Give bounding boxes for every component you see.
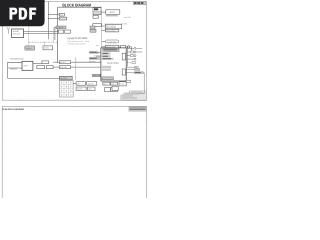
vibrator box row 1b bbox=[87, 82, 97, 86]
svg-text:(Qual) PLATFORM: (Qual) PLATFORM bbox=[67, 37, 87, 40]
wire soc left 1 bbox=[96, 52, 101, 54]
svg-text:GPU:Mali T820 400MHz: GPU:Mali T820 400MHz bbox=[67, 42, 85, 45]
svg-text:Intel X86: Intel X86 bbox=[124, 16, 131, 19]
PDF badge overlay bbox=[0, 0, 45, 26]
box 3 grey row bbox=[94, 12, 101, 13]
front camera box J7 bbox=[105, 29, 119, 32]
wire camera B bbox=[102, 30, 106, 32]
soc internal block sd bbox=[102, 69, 111, 71]
codec block U11 box B bbox=[37, 66, 45, 69]
soc internal sdram block bbox=[103, 49, 119, 52]
platform caption text bbox=[67, 37, 89, 45]
flash pill FL1 bbox=[105, 40, 119, 43]
svg-text:GSEN: GSEN bbox=[44, 47, 50, 50]
wire vertical net under badge bbox=[47, 2, 49, 40]
box 4 bbox=[93, 24, 102, 27]
page 1 border frame bbox=[2, 1, 146, 100]
wire soc left audio 2 bbox=[76, 66, 101, 68]
connector J5 pair box B bbox=[65, 30, 71, 33]
wire codec to bus B bbox=[53, 66, 59, 68]
xtal grey box X1 bbox=[92, 74, 101, 77]
lcd small box left of table bbox=[112, 86, 118, 90]
svg-text:eMCP: eMCP bbox=[110, 11, 116, 14]
rf grey box A bbox=[89, 51, 99, 54]
page 1 border tick marks bbox=[2, 1, 146, 100]
main power bus vertical bbox=[75, 57, 77, 79]
pmic U3 body table bbox=[60, 81, 74, 98]
sim connector row 2 bbox=[127, 51, 142, 53]
headset grey box row 6 bbox=[126, 66, 138, 68]
revision table grey cells bbox=[122, 91, 142, 98]
soc internal block lpddr bbox=[102, 77, 114, 80]
box 5 bbox=[90, 26, 95, 28]
node bus dot 1 bbox=[57, 26, 58, 27]
wire usb link bbox=[119, 47, 132, 51]
wire soc left 2 bbox=[96, 55, 101, 57]
soc internal block ddr bbox=[102, 55, 111, 57]
svg-text:TCARD: TCARD bbox=[120, 83, 125, 85]
svg-text:SIM2: SIM2 bbox=[111, 84, 114, 86]
motor grey box row 7 bbox=[126, 69, 140, 71]
lcd interface box column: box 1 bbox=[93, 8, 101, 15]
wire wifi sdio bbox=[24, 30, 59, 32]
soc internal block usb bbox=[102, 66, 111, 68]
soc right pin strip B bbox=[122, 69, 125, 75]
pmic cell symbols bbox=[61, 82, 72, 97]
antenna ANT1 bbox=[7, 27, 10, 34]
soc right pin strip A bbox=[122, 53, 125, 60]
svg-text:BLOCK DIAGRAM: BLOCK DIAGRAM bbox=[62, 2, 91, 7]
sim connector row 1 bbox=[127, 47, 142, 49]
page 2 top border bbox=[2, 106, 146, 198]
connector row 5 dashed bbox=[127, 62, 135, 64]
codec block U11 box A bbox=[42, 61, 49, 64]
svg-text:SIM1: SIM1 bbox=[103, 84, 106, 86]
svg-text:MODULE: MODULE bbox=[13, 33, 21, 36]
usb connector circle bbox=[128, 46, 130, 48]
node bus dot 2 bbox=[57, 30, 58, 31]
svg-text:SPEAKERS OUT: SPEAKERS OUT bbox=[10, 57, 25, 60]
gsensor U9 box bbox=[43, 46, 53, 50]
page 2 title block grey bbox=[129, 107, 147, 112]
emcp memory U2 bbox=[106, 10, 120, 17]
soc internal block a53 bbox=[102, 52, 111, 54]
wire camera A bbox=[102, 25, 106, 27]
speaker grey pill bbox=[126, 72, 144, 74]
wire amp to codec bbox=[33, 63, 42, 65]
wire audio bus to soc A bbox=[71, 61, 76, 63]
wire soc left xtal bbox=[99, 74, 102, 76]
usb box J8 bbox=[105, 45, 119, 48]
svg-text:SC2723: SC2723 bbox=[60, 77, 67, 80]
rf grey box B bbox=[89, 57, 100, 60]
page 2 border ticks bbox=[2, 106, 146, 170]
soc internal block gpu bbox=[102, 58, 114, 60]
key connector row 4 bbox=[127, 58, 136, 60]
wire flash bbox=[102, 40, 106, 42]
headset block box D bbox=[59, 61, 70, 64]
svg-text:SC2713G: SC2713G bbox=[107, 62, 119, 65]
connector J5 pair box A bbox=[58, 30, 63, 33]
led box row 2b bbox=[87, 87, 95, 91]
wire dashed from bus bbox=[53, 27, 55, 42]
connector J3 small box bbox=[59, 13, 64, 16]
title block (top-right revision table) bbox=[133, 1, 146, 5]
display box dark label bbox=[94, 8, 98, 10]
wire right edge down bbox=[126, 73, 144, 94]
fingerprint box bbox=[105, 88, 118, 92]
led box row 2a bbox=[76, 87, 86, 91]
wire speaker left bbox=[8, 62, 60, 78]
box 6 bbox=[90, 29, 96, 32]
wire bus to pmic bbox=[75, 78, 77, 81]
vibrator box row 1a bbox=[76, 82, 85, 86]
regulator U8 grey box bbox=[56, 26, 66, 29]
audio amp U10 bbox=[22, 61, 33, 70]
soc internal box labels bbox=[103, 49, 118, 78]
soc U1 main block bbox=[101, 48, 126, 81]
wire usb bbox=[102, 46, 106, 48]
wire lcd bus A bbox=[48, 14, 59, 16]
codec block U11 box C bbox=[46, 66, 53, 69]
svg-text:AMP: AMP bbox=[23, 65, 28, 68]
wire lcd bus B bbox=[48, 17, 59, 19]
wire pmic to vib bbox=[73, 82, 76, 84]
wire audio bus to soc B bbox=[71, 66, 76, 68]
usb connector small box bbox=[121, 46, 126, 48]
main peripheral bus vertical left bbox=[57, 7, 59, 63]
key connector row 3 bbox=[127, 55, 136, 57]
wire soc left audio 1 bbox=[76, 61, 101, 63]
wire vertical net to codec bbox=[54, 27, 56, 40]
svg-text:IP BLOCK DIAGRAM: IP BLOCK DIAGRAM bbox=[2, 108, 24, 111]
box 2 grey row bbox=[94, 11, 101, 12]
wire dashed touch bus bbox=[29, 26, 58, 47]
rear camera box J6 bbox=[105, 24, 121, 29]
wire codec to bus A bbox=[53, 61, 59, 63]
small box below soc right bbox=[126, 80, 130, 83]
wire wifi uart bbox=[24, 33, 59, 35]
sd card box row 1 bbox=[103, 82, 126, 86]
node junction dot bbox=[54, 27, 55, 28]
touch panel TP1 grey box bbox=[25, 46, 35, 50]
wire top cross bus bbox=[58, 6, 102, 8]
box 3b small below bbox=[93, 15, 98, 18]
wire emcp bbox=[102, 11, 106, 13]
bottom-right revision table page1 bbox=[121, 91, 147, 100]
peripheral bus vertical (top right) bbox=[101, 10, 103, 48]
svg-text:WIFI/BT: WIFI/BT bbox=[13, 30, 20, 33]
pmic U3 header bbox=[60, 76, 73, 80]
connector J4 small box bbox=[59, 17, 66, 20]
svg-text:TOUCH: TOUCH bbox=[26, 47, 33, 50]
right trunk wire bbox=[126, 47, 128, 67]
headset block box E bbox=[59, 66, 70, 70]
wifi/bt module U7 bbox=[12, 29, 24, 38]
